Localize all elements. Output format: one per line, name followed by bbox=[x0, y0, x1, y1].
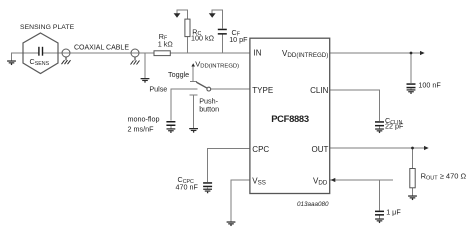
svg-text:VDD(INTREGD): VDD(INTREGD) bbox=[195, 59, 239, 69]
svg-text:TYPE: TYPE bbox=[252, 86, 273, 95]
svg-text:1 μF: 1 μF bbox=[386, 208, 401, 217]
svg-text:IN: IN bbox=[254, 49, 262, 58]
svg-text:OUT: OUT bbox=[312, 145, 329, 154]
svg-text:2 ms/nF: 2 ms/nF bbox=[128, 125, 155, 134]
svg-text:PCF8883: PCF8883 bbox=[271, 113, 309, 124]
svg-text:Toggle: Toggle bbox=[168, 70, 189, 79]
svg-text:10 pF: 10 pF bbox=[229, 35, 248, 44]
svg-text:CSENS: CSENS bbox=[30, 57, 50, 67]
svg-text:button: button bbox=[199, 105, 219, 114]
svg-text:ROUT ≥ 470 Ω: ROUT ≥ 470 Ω bbox=[421, 172, 467, 182]
svg-text:CPC: CPC bbox=[252, 145, 269, 154]
svg-text:Pulse: Pulse bbox=[149, 85, 167, 94]
svg-text:470 nF: 470 nF bbox=[176, 182, 199, 191]
svg-text:1 kΩ: 1 kΩ bbox=[158, 39, 174, 48]
svg-text:100 kΩ: 100 kΩ bbox=[191, 34, 215, 43]
svg-text:SENSING PLATE: SENSING PLATE bbox=[20, 24, 75, 31]
svg-text:mono-flop: mono-flop bbox=[128, 115, 160, 124]
svg-text:22 pF: 22 pF bbox=[385, 122, 404, 131]
svg-text:COAXIAL CABLE: COAXIAL CABLE bbox=[74, 44, 129, 51]
svg-text:013aaa080: 013aaa080 bbox=[297, 201, 329, 208]
svg-text:CLIN: CLIN bbox=[310, 86, 328, 95]
svg-text:100 nF: 100 nF bbox=[418, 80, 441, 89]
